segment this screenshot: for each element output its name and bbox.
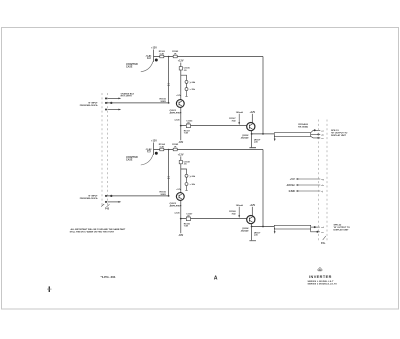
svg-text:}+14h: }+14h [190,81,196,84]
wire chain top ch1 [180,63,182,67]
junction rail2/R1156 [168,149,170,151]
svg-text:7.5K: 7.5K [184,133,189,135]
connector grommet ch2 [155,152,158,155]
junction x263/output ch1 [262,133,264,135]
connector grommet ch1 [155,59,158,62]
fan wire ch1 pin c [311,136,321,138]
transistor Q1104 [247,216,255,224]
svg-text:+12V: +12V [176,95,181,97]
junction x263/output ch2 [262,226,264,228]
wire ch1 output [252,133,275,135]
wire +12V to Q1102 collector [251,114,253,123]
wire feedback x263 ch2 (rail2 corner down to output) [262,150,264,227]
wire ch1 base line to Q1102 [181,125,247,127]
wire ch2 side branch end tick [185,186,187,191]
svg-text:5.2K: 5.2K [160,146,165,148]
wire +12V stub ch1 [153,50,155,63]
wire chain top ch2 [180,156,182,160]
svg-text:+12V: +12V [178,60,184,63]
wire Q1101 emitter down ch1 [180,107,182,125]
wire ch2 base line to Q1104 [181,218,247,220]
wire pin stub ch1 a [105,98,121,100]
fan wire ch2 pin e [311,229,320,233]
rail2 wire +12V bus ch2 [154,149,264,151]
resistor R1157 to -18V ch1 [180,126,182,141]
resistor R1165 (inline box on rail2) [173,148,177,151]
wire ch2 output [252,226,275,228]
svg-text:920Ω: 920Ω [160,193,166,196]
svg-text:⊔125: ⊔125 [175,118,181,121]
current arrow ch2 [238,207,240,218]
resistor R1159 to -18V ch2 [180,219,182,234]
wire pin stub ch2 [105,201,121,203]
wire Q1103 emitter down ch2 [180,200,182,218]
fan wire ch1 pin b [311,134,321,135]
connector lug box ch1 [148,57,151,59]
wire +12V stub ch2 [153,143,155,156]
net GND wire to connector [296,190,321,192]
svg-text:+12V: +12V [249,111,255,114]
wire Q1102 emitter to ground [251,131,253,148]
svg-text:5.2K: 5.2K [160,53,165,55]
svg-text:1K: 1K [174,53,177,55]
junction base Q1101 [168,102,170,104]
junction ch2 emitter node [180,218,182,220]
cable CR1948-B box ch1 [274,133,310,137]
svg-text:1K: 1K [174,146,177,148]
svg-text:+12V: +12V [151,140,157,143]
net -18V wire to connector [296,184,321,186]
svg-text:+5V: +5V [290,177,295,181]
junction ch2 output node [251,226,253,228]
cable box ch2 [274,225,310,229]
svg-text:AMPLIFIER: AMPLIFIER [169,205,182,207]
svg-text:*1.PG. 201: *1.PG. 201 [101,275,116,279]
connector P2 right dashed line 1 [317,120,319,242]
wire ch1 input to Q1101 base [105,102,168,104]
wire ch2 chain to Q1103 [180,164,182,193]
connector P1 left dashed line 1 [101,93,103,205]
wire feedback x263 ch1 (rail1 corner down to output) [262,57,264,134]
junction base Q1103 [168,195,170,197]
resistor R1162 (inline box on rail1) [173,55,177,58]
svg-text:AMPLIFIER: AMPLIFIER [169,112,182,114]
svg-text:>-15h: >-15h [190,88,196,91]
svg-text:100mA: 100mA [236,111,244,114]
leader arc to adapter case ch1 [141,62,153,72]
svg-text:2N2148: 2N2148 [240,136,249,139]
svg-text:P.G.: P.G. [321,242,326,245]
svg-text:}+16h: }+16h [190,176,196,178]
connector P1 bottom ticks [101,204,109,207]
svg-text:2N2148: 2N2148 [240,229,249,232]
svg-text:GND: GND [289,189,295,193]
wire pin stub ch1 b [105,109,121,111]
junction ch1 output node [251,133,253,135]
svg-text:TW-1948Ω: TW-1948Ω [298,126,309,129]
chassis arrow ch2 [274,228,276,234]
leader arc to adapter case ch2 [141,155,153,165]
wire +12V to Q1104 collector [251,207,253,216]
connector P1 left dashed line 2 [107,93,109,205]
diode CR1103 circle ch2 [185,174,188,177]
diode CR1104 circle ch2 [185,183,188,186]
wire ch1 side branch [186,83,188,87]
svg-text:RH Y-ORTH: RH Y-ORTH [121,96,133,98]
wire ch1 side branch end tick [185,91,187,97]
diode CR1101 circle ch1 [185,80,188,83]
rail1 wire +12V bus ch1 [154,56,264,58]
wire ch2 side branch jog [181,169,187,174]
svg-text:DISPLAY UNIT: DISPLAY UNIT [331,134,347,137]
fan wire ch2 pin d [311,226,320,227]
wire ch2 side branch [186,177,188,182]
svg-text:+12V: +12V [176,189,181,191]
title block logo triangle [317,267,322,271]
wire ch2 input to Q1103 base [105,195,168,197]
transistor Q1103 [176,193,184,201]
ground bar ch2 [249,240,256,242]
svg-text:920Ω: 920Ω [160,100,166,103]
connector lug box ch2 [148,150,151,152]
svg-text:SERIES 2 MODELS-LS-TX: SERIES 2 MODELS-LS-TX [308,284,338,286]
svg-text:STILL THE DR 17 AMER ON TWO TW: STILL THE DR 17 AMER ON TWO TWO TORT [70,231,115,234]
net +5V wire to connector [296,178,321,180]
resistor R1163 (inline box on rail1) [160,55,164,58]
svg-text:CASE: CASE [126,159,133,162]
svg-text:+12V: +12V [178,153,184,156]
svg-text:CASE: CASE [126,66,133,69]
ground bar ch1 [249,147,256,149]
connector P2 bottom tick [323,236,326,240]
capacitor C1106 box ch1 [179,67,182,70]
svg-text:A'DAPTER: A'DAPTER [126,156,138,159]
resistor R1155 vertical with wire [167,57,169,103]
registration cross mark [47,286,52,292]
svg-text:+12V: +12V [249,204,255,207]
diode CR1102 circle ch1 [185,88,188,91]
svg-text:-18V: -18V [178,235,183,237]
svg-text:DISPLAY UNIT: DISPLAY UNIT [334,229,350,232]
capacitor C1107 box on wire [186,217,190,221]
svg-text:>-16h: >-16h [190,183,196,186]
wire ch1 side branch jog [181,75,187,80]
capacitor C1108 box ch2 [179,160,182,163]
svg-text:A'DAPTER: A'DAPTER [126,63,138,66]
wire ch1 chain to Q1101 [180,70,182,100]
capacitor C1103 box on wire [186,124,190,128]
svg-text:FROM MELODICA: FROM MELODICA [80,197,98,200]
svg-text:INVERTER: INVERTER [309,275,332,279]
current arrow ch1 [238,114,240,125]
svg-text:⊔125: ⊔125 [175,211,181,214]
svg-text:+12V: +12V [151,47,157,50]
junction ch1 emitter node [180,125,182,127]
svg-text:A: A [214,275,218,281]
transistor Q1102 [247,123,255,131]
svg-text:FROM MELODICA: FROM MELODICA [80,104,98,107]
svg-text:7.5K: 7.5K [184,226,189,228]
connector P2 right dashed line 2 [326,120,328,242]
resistor R1164 (inline box on rail2) [160,148,164,151]
wire Q1104 emitter to ground [251,224,253,241]
svg-text:75Ω: 75Ω [231,213,235,216]
svg-text:-18V: -18V [178,142,183,144]
transistor Q1101 [176,100,184,108]
svg-text:75Ω: 75Ω [231,120,235,123]
svg-text:P-B: P-B [105,208,109,211]
svg-text:-18Vdc: -18Vdc [286,183,296,187]
fan wire ch1 pin a [311,130,321,133]
junction rail1/R1155 [168,56,170,58]
svg-text:100mA: 100mA [236,204,244,207]
resistor R1156 vertical with wire [167,150,169,196]
chassis arrow ch1 [274,136,276,142]
